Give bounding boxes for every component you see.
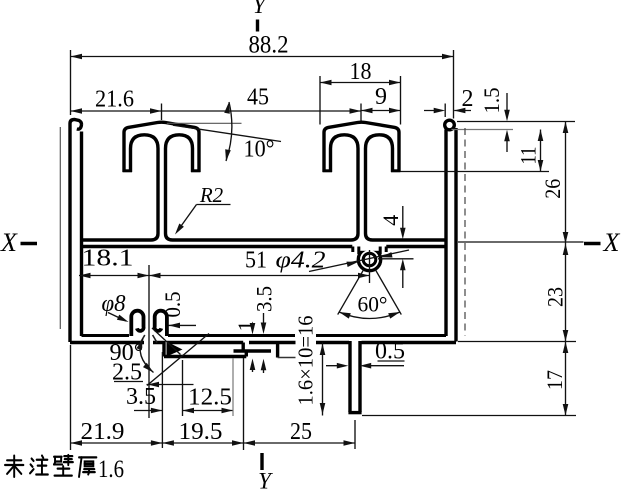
profile body top wall inner line (82, 245, 447, 248)
right T-slot stem fillet right (366, 234, 373, 241)
bottom middle step line (234, 349, 272, 352)
left T-slot channel outer contour with 10-deg roof (124, 122, 199, 172)
extension line box bottom right (458, 341, 576, 343)
extension tick wall curl left (444, 104, 446, 118)
svg-text:25: 25 (290, 419, 312, 445)
extension line step right (243, 358, 245, 450)
extension line right T left arm (319, 76, 321, 125)
note text 'zhu' character (30, 456, 48, 475)
dimension 51 line (149, 275, 370, 277)
extension line right T center (360, 104, 362, 121)
X-X section line right (458, 241, 584, 243)
X axis dash left (21, 242, 38, 246)
dimension 18.1 line (79, 275, 149, 277)
dimension phi4.2 slanted line (309, 250, 409, 272)
extension line step edge (161, 352, 163, 448)
svg-text:19.5: 19.5 (179, 419, 223, 445)
angle 60-deg left ray (338, 270, 364, 315)
dimension 0.5 clip leader (169, 324, 197, 326)
left T-slot left arm bottom cap (123, 169, 132, 172)
svg-text:11: 11 (516, 147, 541, 165)
angle 90-deg arc (140, 339, 153, 373)
profile left wall top hook curl (77, 125, 82, 130)
angle 60-deg right ray (375, 270, 401, 315)
dimension 18 line (320, 82, 401, 84)
bottom step riser (241, 343, 244, 352)
right T-slot left arm bottom cap (323, 169, 332, 172)
profile left wall outer edge with top cap (70, 120, 82, 343)
profile body bottom wall inner line (82, 334, 447, 337)
extension line left outer wall lower (70, 345, 72, 450)
extension line boss center vertical (369, 250, 371, 283)
profile right wall outer edge (454, 128, 457, 342)
dimension 3.5 rotated arrows (263, 313, 265, 373)
angle 60-deg arc (339, 312, 400, 319)
extension line leg center (354, 420, 356, 449)
note text 'wei' character (5, 456, 23, 477)
dimension 0.5 leg arrows (326, 365, 404, 367)
svg-text:45: 45 (247, 85, 269, 111)
dimension 1 arrows (252, 325, 254, 372)
svg-text:18.1: 18.1 (82, 246, 134, 272)
svg-text:10°: 10° (244, 137, 275, 163)
profile body bottom wall outer line left (70, 341, 164, 344)
dimension 3.5-12.5 line (134, 410, 233, 412)
dimension 21.6 line (71, 110, 162, 112)
screw boss right neck (380, 247, 386, 255)
snap clip right claw phi8 (155, 311, 167, 336)
extension line clip center vertical (148, 265, 150, 418)
svg-text:9: 9 (375, 84, 387, 110)
dimension bottom row line (71, 442, 356, 444)
phantom line left of wall (59, 127, 61, 329)
svg-text:1.6×10=16: 1.6×10=16 (294, 316, 318, 406)
snap clip left claw phi8 (131, 311, 143, 336)
dimension 2.5 underline (114, 381, 143, 383)
profile right wall inner edge (444, 130, 447, 337)
dimension line 26-23-17 (565, 122, 567, 416)
phi8 leader line (108, 313, 126, 322)
dimension 0.5 leg underline (378, 360, 405, 362)
extension line right outer wall upper (453, 50, 455, 119)
profile left wall inner edge (80, 132, 83, 337)
screw boss ring outer circle (358, 248, 380, 270)
left T-slot right arm bottom cap (191, 169, 200, 172)
Y axis tick top (256, 20, 259, 32)
extension line arm bottom level (401, 171, 550, 173)
bottom leg left wall (348, 341, 351, 412)
reference line 10-deg slope (173, 125, 281, 141)
bottom leg right wall (358, 341, 361, 412)
dimension 88.2 line (71, 56, 454, 58)
extension line left T center (161, 104, 163, 121)
svg-text:3.5: 3.5 (252, 286, 277, 312)
dimension 2.5 leader (147, 384, 194, 386)
profile body bottom wall outer line middle (167, 341, 349, 344)
bottom lip lower line (164, 355, 246, 358)
bottom step left edge (162, 341, 165, 357)
dimension 2 arrows (424, 110, 471, 112)
angle 90-deg ray (152, 328, 181, 355)
svg-text:0.5: 0.5 (160, 292, 185, 318)
profile body top wall outer line (82, 238, 447, 241)
screw boss ring inner circle phi4.2 (363, 253, 376, 266)
extension line leg bottom right (362, 415, 576, 417)
right T-slot right arm bottom cap (391, 169, 400, 172)
left T-slot left arch inner contour and stem left wall (131, 135, 159, 234)
extension line boss center level (378, 258, 414, 260)
bottom groove edge (276, 343, 279, 358)
svg-text:17: 17 (542, 370, 567, 390)
svg-text:21.9: 21.9 (81, 419, 125, 445)
bottom leg end cap (348, 411, 361, 414)
svg-text:18: 18 (350, 59, 372, 85)
note text 'hou' character (79, 457, 96, 476)
right T-slot right arch inner contour and stem right wall (366, 135, 393, 234)
bottom lip right step up (245, 351, 248, 357)
extension line right T right arm (400, 76, 402, 125)
svg-text:88.2: 88.2 (249, 32, 289, 59)
svg-text:4: 4 (378, 215, 403, 226)
svg-text:1.6: 1.6 (98, 456, 124, 483)
hidden dashed line right of wall (464, 128, 466, 336)
profile body bottom wall outer line right (362, 341, 457, 344)
right T-slot stem fillet left (351, 234, 358, 241)
svg-text:12.5: 12.5 (188, 385, 232, 411)
svg-text:23: 23 (543, 287, 568, 307)
chamfer wedge at step (167, 342, 183, 357)
extension line left outer wall upper (70, 50, 72, 115)
screw boss opening mask (356, 243, 383, 251)
extension line wall top right (457, 121, 575, 123)
dimension 11 line (540, 130, 542, 172)
svg-text:21.6: 21.6 (95, 87, 134, 113)
svg-text:51: 51 (245, 248, 267, 274)
left T-slot stem fillet R2 right (166, 234, 173, 241)
angle arc 10-deg (226, 102, 232, 161)
extension line groove (232, 358, 234, 416)
left T-slot right arch inner contour and stem right wall (166, 135, 193, 234)
svg-text:1.5: 1.5 (479, 88, 504, 114)
svg-text:Y: Y (258, 469, 273, 490)
svg-text:3.5: 3.5 (126, 384, 156, 410)
reference line horizontal from left T peak (167, 122, 242, 124)
left T-slot stem fillet R2 left (151, 234, 158, 241)
svg-text:X: X (0, 228, 18, 257)
svg-text:26: 26 (540, 179, 565, 199)
R2 leader line (178, 205, 231, 232)
snap slot V-notch edges (141, 335, 158, 343)
dimension 45 line (162, 110, 362, 112)
right T-slot left arch inner contour and stem left wall (331, 135, 359, 234)
dimension 1.5 arrows (506, 93, 508, 152)
extension line 1.5 below (452, 129, 514, 131)
svg-text:2: 2 (462, 86, 474, 112)
note text 'bi' character (54, 455, 73, 476)
svg-text:60°: 60° (358, 292, 388, 317)
svg-text:R2: R2 (199, 183, 224, 207)
svg-text:φ8: φ8 (102, 291, 126, 317)
right T-slot channel outer contour with roof (324, 122, 399, 172)
Y axis tick bottom (260, 453, 263, 470)
dimension 1.6x10=16 line (322, 343, 324, 416)
construction diagonal line (147, 334, 209, 386)
dimension 1.6x10=16 mask (296, 314, 316, 407)
svg-text:Y: Y (253, 0, 268, 18)
X axis dash right (584, 242, 601, 246)
dimension 9 line (361, 110, 401, 112)
profile right wall top curl circle (445, 120, 455, 130)
bottom groove thin line (278, 357, 307, 359)
dimension 4 arrows (402, 206, 404, 288)
extension line chamfer corner (182, 360, 184, 416)
svg-text:X: X (603, 228, 621, 257)
screw boss left neck (353, 247, 359, 255)
